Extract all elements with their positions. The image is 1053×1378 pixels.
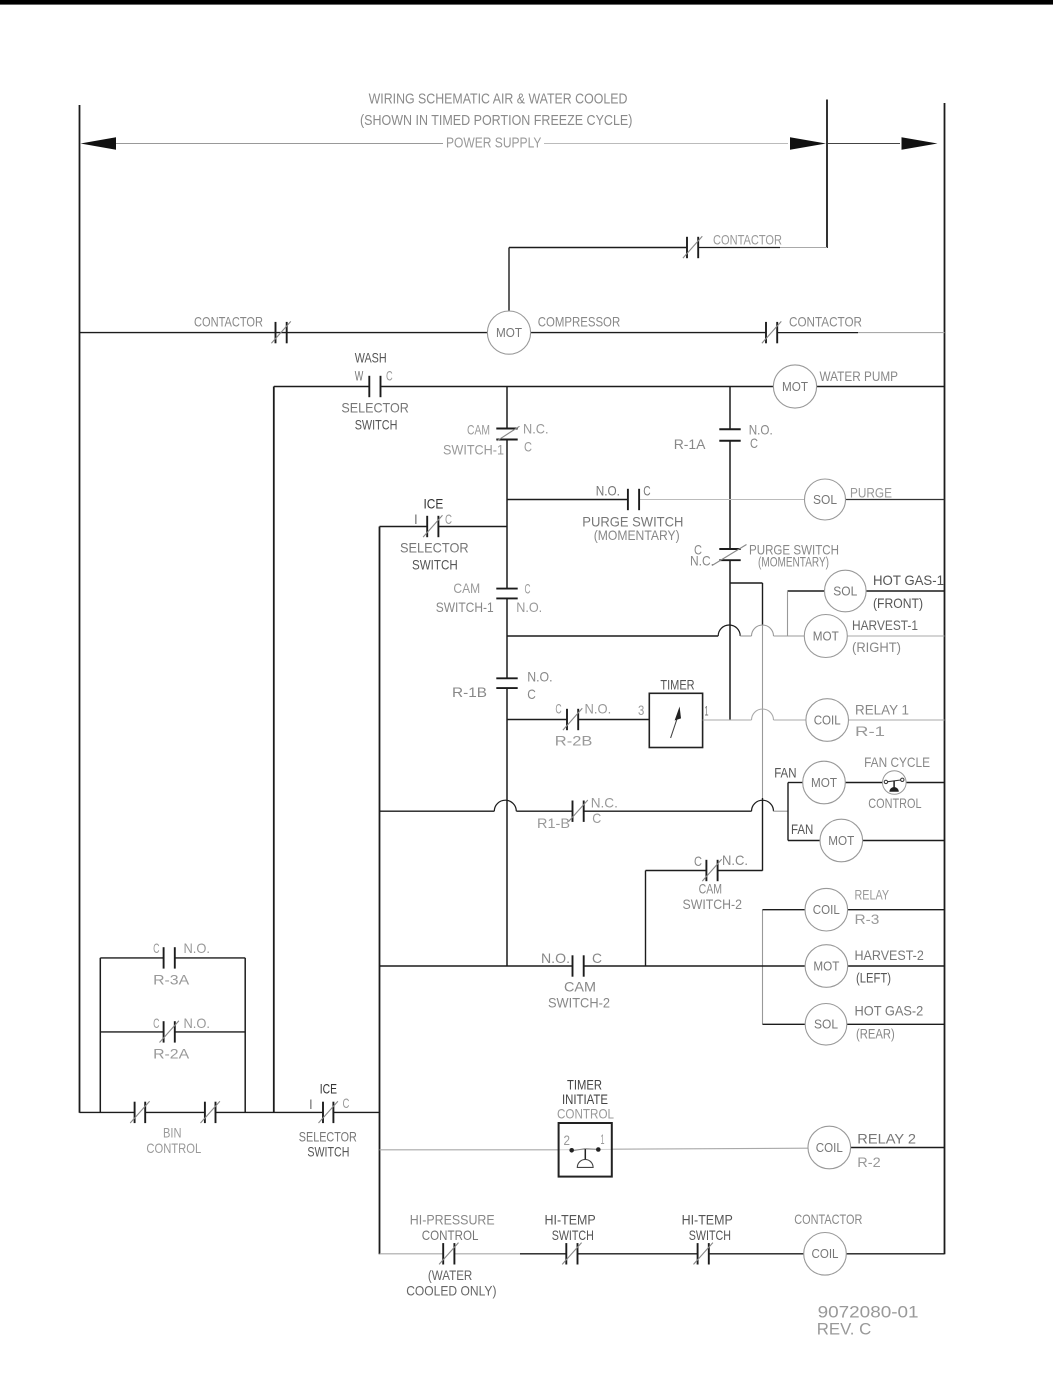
svg-text:ICE: ICE (320, 1081, 337, 1097)
fan cycle control switch (883, 771, 907, 795)
svg-text:N.O.: N.O. (184, 1015, 211, 1031)
svg-text:C: C (555, 700, 561, 716)
label: RELAY 2 R-2 (857, 1131, 916, 1171)
contact: CONTACTOR (left, N.C.) (271, 321, 290, 343)
label: WATER PUMP (820, 368, 899, 384)
label: HARVEST-2 (LEFT) (855, 947, 924, 986)
label: CONTACTOR (bottom) (794, 1211, 862, 1227)
coil: COIL relay 1 (806, 699, 849, 742)
svg-text:CAM: CAM (467, 422, 490, 438)
label: CAM SWITCH-1 N.C. C (443, 421, 549, 458)
svg-text:POWER SUPPLY: POWER SUPPLY (446, 136, 542, 152)
solenoid: SOL hot gas-2 (805, 1004, 847, 1046)
svg-text:(LEFT): (LEFT) (856, 970, 891, 986)
label: PURGE (850, 485, 892, 501)
contact: HI-PRESSURE CONTROL (N.C.) (439, 1243, 458, 1265)
label: HARVEST-1 (RIGHT) (852, 617, 918, 655)
svg-text:R-1: R-1 (855, 723, 885, 739)
svg-text:FAN CYCLE: FAN CYCLE (864, 754, 930, 770)
contact: CAM SWITCH-1 (N.C.) (496, 426, 519, 441)
label: CAM SWITCH-1 C N.O. (436, 580, 543, 615)
label: FAN (2) (791, 821, 813, 837)
svg-text:SWITCH-1: SWITCH-1 (436, 599, 494, 615)
svg-text:WATER PUMP: WATER PUMP (820, 368, 899, 384)
contact: CAM SWITCH-1 (N.O. lower) (496, 589, 517, 599)
svg-text:C: C (524, 439, 532, 455)
svg-text:MOT: MOT (811, 776, 837, 790)
label: HOT GAS-2 (REAR) (855, 1003, 924, 1042)
wire: hot gas-2 stubs (763, 1023, 945, 1025)
wire: rail from ice rung down (x=379) (379, 527, 381, 1255)
svg-text:HI-PRESSURE: HI-PRESSURE (410, 1212, 495, 1228)
label: PURGE SWITCH (MOMENTARY) (582, 482, 683, 543)
svg-text:COOLED ONLY): COOLED ONLY) (406, 1282, 496, 1298)
contact: CAM SWITCH-2 (N.O.) (573, 955, 584, 976)
label: POWER SUPPLY (446, 136, 542, 152)
label: TIMER INITIATE CONTROL (557, 1077, 614, 1122)
contact: R-1B (N.O.) (496, 678, 517, 688)
svg-text:R-2A: R-2A (153, 1045, 190, 1061)
svg-text:TIMER: TIMER (660, 676, 694, 692)
svg-text:HARVEST-2: HARVEST-2 (855, 947, 924, 963)
svg-text:WIRING SCHEMATIC AIR & WATER C: WIRING SCHEMATIC AIR & WATER COOLED (369, 92, 628, 108)
contact: CONTACTOR (N.C., top) (683, 236, 702, 258)
contact: PURGE SWITCH (N.O.) (628, 489, 639, 510)
svg-text:HI-TEMP: HI-TEMP (545, 1212, 596, 1228)
svg-text:COIL: COIL (814, 713, 841, 727)
svg-text:CAM: CAM (699, 881, 722, 897)
label: HI-TEMP SWITCH 2 (682, 1212, 733, 1244)
label: ICE I C (414, 495, 452, 527)
svg-text:3: 3 (638, 702, 644, 718)
contact: ICE SELECTOR SWITCH 2 (N.C.) (319, 1101, 338, 1123)
svg-text:RELAY: RELAY (855, 887, 890, 903)
power supply dimension line with arrowheads (81, 137, 938, 149)
label: CONTACTOR (left) (194, 314, 263, 330)
label: CAM SWITCH-2 N.O. C (541, 950, 610, 1011)
wire: timer rung (R-2B) (507, 719, 649, 721)
label: R-2A C N.O. (153, 1015, 210, 1061)
svg-text:N.O.: N.O. (596, 482, 620, 498)
svg-text:SWITCH: SWITCH (552, 1227, 594, 1243)
svg-text:C: C (343, 1095, 350, 1111)
svg-text:MOT: MOT (496, 326, 522, 340)
label: R-1B N.O. C (452, 669, 553, 703)
svg-text:SWITCH-1: SWITCH-1 (443, 442, 504, 458)
svg-text:N.C.: N.C. (591, 794, 618, 810)
contact: CAM SWITCH-2 (N.C.) (702, 859, 721, 881)
svg-text:BIN: BIN (163, 1124, 182, 1140)
svg-text:N.O.: N.O. (516, 599, 542, 615)
label: PURGE SWITCH (MOMENTARY) N.C. (690, 542, 839, 570)
svg-text:CONTACTOR: CONTACTOR (194, 314, 263, 330)
wire: fan motor 1 rung (788, 782, 945, 784)
label: R-2B C N.O. (555, 700, 611, 748)
svg-text:R1-B: R1-B (537, 815, 570, 831)
label: CAM SWITCH-2 C N.C. (683, 852, 749, 912)
svg-text:TIMER: TIMER (567, 1077, 602, 1093)
wire: contactor rung (509, 248, 827, 312)
motor: MOT fan 2 (820, 819, 863, 862)
svg-text:W: W (355, 367, 364, 383)
svg-text:CONTROL: CONTROL (868, 795, 921, 811)
svg-text:ICE: ICE (424, 495, 444, 511)
motor: MOT harvest-2 (805, 945, 848, 988)
wire: cam switch-2 N.C. rung (646, 871, 763, 967)
label: HI-TEMP SWITCH 1 (545, 1212, 596, 1244)
svg-text:CONTROL: CONTROL (146, 1140, 201, 1156)
label: BIN CONTROL (146, 1124, 201, 1156)
svg-text:CONTROL: CONTROL (557, 1106, 614, 1122)
svg-text:MOT: MOT (813, 959, 839, 973)
svg-text:SELECTOR: SELECTOR (299, 1128, 357, 1144)
svg-text:CONTACTOR: CONTACTOR (713, 232, 782, 248)
svg-text:HARVEST-1: HARVEST-1 (852, 617, 918, 633)
wire: compressor rung (80, 332, 945, 334)
wire: right power rail (944, 103, 946, 1254)
label: ICE I C (2) (309, 1081, 349, 1113)
svg-text:HI-TEMP: HI-TEMP (682, 1212, 733, 1228)
label: CONTACTOR (right) (789, 314, 862, 330)
wire: relay-2 rung (380, 1148, 945, 1150)
svg-text:HOT GAS-2: HOT GAS-2 (855, 1003, 924, 1019)
svg-text:(SHOWN IN TIMED PORTION FREEZE: (SHOWN IN TIMED PORTION FREEZE CYCLE) (360, 113, 632, 129)
svg-text:N.O.: N.O. (184, 940, 211, 956)
wire: harvest-1 rung (507, 625, 945, 636)
svg-text:(REAR): (REAR) (856, 1026, 895, 1042)
wire: ice selector rung (380, 526, 508, 528)
contact: R-2A (N.C.) (160, 1021, 179, 1043)
solenoid: SOL purge (805, 479, 846, 520)
svg-text:N.C.: N.C. (690, 553, 714, 569)
label: RELAY R-3 (855, 887, 890, 928)
label: 2 1 (pins) (564, 1131, 605, 1148)
svg-text:CAM: CAM (564, 979, 596, 995)
svg-text:2: 2 (564, 1132, 571, 1148)
label: FAN CYCLE CONTROL (864, 754, 930, 811)
coil: COIL relay 3 (805, 888, 848, 931)
motor: MOT compressor (487, 311, 530, 354)
svg-text:SWITCH: SWITCH (412, 557, 458, 573)
svg-text:C: C (386, 367, 393, 383)
contact: PURGE SWITCH momentary (N.C.) (712, 545, 747, 566)
svg-text:C: C (153, 1015, 159, 1031)
svg-text:FAN: FAN (774, 765, 796, 781)
svg-text:R-2B: R-2B (555, 732, 593, 748)
svg-text:MOT: MOT (828, 834, 854, 848)
svg-text:CONTROL: CONTROL (422, 1227, 479, 1243)
contact: BIN CONTROL 2 (N.C.) (201, 1101, 220, 1123)
wire: fan motor 2 rung (788, 840, 945, 842)
svg-text:C: C (694, 853, 702, 869)
wire: R-1A column (729, 387, 731, 721)
svg-text:COIL: COIL (816, 1141, 843, 1155)
svg-text:R-2: R-2 (857, 1154, 881, 1170)
wire: vertical x=762 relay3 to hot gas-2 (762, 910, 764, 1025)
label: drawing number and revision (817, 1303, 919, 1339)
solenoid: SOL hot gas-1 (825, 570, 867, 612)
coil: COIL relay 2 (808, 1126, 851, 1169)
timer: TIMER box (649, 693, 702, 747)
svg-text:C: C (592, 950, 602, 966)
label: RELAY 1 R-1 (855, 702, 909, 740)
contact: R-1A (N.O.) (719, 429, 740, 441)
wire: contactor coil rung (380, 1253, 945, 1255)
svg-text:MOT: MOT (782, 380, 808, 394)
contact: CONTACTOR (right, N.C.) (762, 321, 781, 343)
label: SELECTOR SWITCH (2) (299, 1128, 357, 1159)
svg-text:SOL: SOL (813, 493, 837, 507)
label: CONTACTOR (top) (713, 232, 782, 248)
contact: HI-TEMP SWITCH 1 (N.C.) (562, 1243, 581, 1265)
label: R-3A C N.O. (153, 940, 210, 987)
label: R1-B N.C. C (537, 794, 618, 831)
svg-text:N.C.: N.C. (722, 852, 748, 868)
wire: branch below purge switch to x=762 (730, 582, 763, 584)
label: WASH W C (355, 349, 393, 383)
svg-text:SWITCH: SWITCH (307, 1144, 349, 1160)
label: TIMER 3 1 (638, 676, 709, 718)
svg-text:RELAY 1: RELAY 1 (855, 702, 909, 718)
svg-text:C: C (445, 511, 452, 527)
wire: left power rail (79, 105, 81, 1113)
wire: R1-B rung (380, 800, 789, 811)
contact: ICE SELECTOR SWITCH (N.C.) (423, 515, 442, 537)
wire: purge solenoid rung (507, 499, 945, 501)
svg-text:C: C (750, 435, 758, 451)
svg-text:SWITCH-2: SWITCH-2 (548, 995, 610, 1011)
contact: BIN CONTROL 1 (N.C.) (130, 1101, 149, 1123)
wire: timer to relay-1 coil (703, 709, 945, 720)
label: HOT GAS-1 (FRONT) (873, 572, 944, 611)
svg-text:COMPRESSOR: COMPRESSOR (538, 314, 621, 330)
svg-text:PURGE: PURGE (850, 485, 892, 501)
svg-text:COIL: COIL (813, 903, 840, 917)
svg-text:(RIGHT): (RIGHT) (852, 639, 901, 655)
label: HI-PRESSURE CONTROL (WATER COOLED ONLY) (406, 1212, 496, 1299)
label: SELECTOR SWITCH (wash) (341, 400, 408, 433)
wire: hot gas-1 stub (788, 591, 945, 636)
svg-text:(MOMENTARY): (MOMENTARY) (594, 527, 680, 543)
svg-text:C: C (527, 686, 536, 702)
wire: wash selector / water pump rung (274, 386, 945, 388)
svg-text:(MOMENTARY): (MOMENTARY) (758, 554, 829, 570)
svg-text:N.O.: N.O. (541, 950, 570, 966)
contact: WASH SELECTOR SWITCH (N.O.) (369, 376, 380, 397)
svg-text:REV. C: REV. C (817, 1319, 872, 1338)
wire: upper-right rail segment (826, 100, 828, 249)
svg-text:C: C (525, 581, 531, 597)
svg-text:COIL: COIL (812, 1247, 839, 1261)
svg-text:SWITCH: SWITCH (689, 1227, 731, 1243)
svg-text:I: I (309, 1096, 312, 1112)
timer initiate control box (559, 1123, 612, 1177)
svg-text:N.O.: N.O. (585, 700, 612, 716)
label: FAN (1) (774, 765, 796, 781)
svg-text:C: C (643, 482, 650, 498)
svg-text:I: I (414, 511, 417, 527)
wire: relay-3 coil stubs (763, 909, 945, 911)
svg-text:1: 1 (705, 703, 709, 719)
svg-text:R-1B: R-1B (452, 684, 487, 700)
wire: rail from wash rung down (x=274) (273, 387, 275, 1113)
motor: MOT water pump (773, 365, 816, 408)
contact: R-3A (N.O.) (164, 947, 175, 968)
svg-text:FAN: FAN (791, 821, 813, 837)
wire: vertical x=762 down to cam switch-2 rung (762, 583, 764, 871)
svg-text:(WATER: (WATER (428, 1267, 472, 1283)
contact: R1-B (N.C.) (568, 800, 587, 822)
svg-text:WASH: WASH (355, 349, 387, 365)
svg-text:CONTACTOR: CONTACTOR (794, 1211, 862, 1227)
wire: parallel box verticals (100, 958, 245, 1113)
motor: MOT harvest-1 (804, 615, 847, 658)
label: drawing title (360, 92, 632, 129)
svg-text:N.O.: N.O. (527, 669, 552, 685)
contact: R-2B (N.C.) (563, 708, 582, 730)
motor: MOT fan 1 (803, 761, 846, 804)
wire: R-2A rung (100, 1031, 245, 1033)
svg-text:MOT: MOT (813, 629, 839, 643)
svg-text:1: 1 (601, 1131, 605, 1147)
svg-text:(FRONT): (FRONT) (873, 595, 923, 611)
svg-text:CAM: CAM (453, 580, 480, 596)
label: COMPRESSOR (538, 314, 621, 330)
svg-text:SOL: SOL (814, 1018, 838, 1032)
svg-text:R-3: R-3 (855, 911, 880, 927)
top border bar (frame) (0, 0, 1053, 5)
svg-text:CONTACTOR: CONTACTOR (789, 314, 862, 330)
svg-text:R-3A: R-3A (153, 971, 190, 987)
svg-text:R-1A: R-1A (674, 436, 706, 452)
svg-text:SOL: SOL (833, 584, 857, 598)
svg-text:RELAY 2: RELAY 2 (857, 1131, 916, 1147)
svg-text:SELECTOR: SELECTOR (341, 400, 408, 416)
svg-text:SELECTOR: SELECTOR (400, 540, 469, 556)
wire: R-3A rung (100, 957, 245, 959)
label: SELECTOR SWITCH (ice) (400, 540, 469, 573)
wire: harvest-2 rung (380, 965, 945, 967)
svg-text:N.C.: N.C. (523, 421, 549, 437)
svg-text:C: C (592, 810, 601, 826)
coil: COIL contactor (804, 1233, 847, 1276)
wire: fan branch vertical (787, 783, 789, 841)
svg-text:SWITCH: SWITCH (355, 417, 398, 433)
wire: cam switch-1 column (506, 387, 508, 967)
svg-text:SWITCH-2: SWITCH-2 (683, 896, 743, 912)
contact: HI-TEMP SWITCH 2 (N.C.) (694, 1243, 713, 1265)
svg-text:C: C (153, 940, 159, 956)
wire: bin control rung (80, 1111, 380, 1113)
svg-text:HOT GAS-1: HOT GAS-1 (873, 572, 944, 588)
label: R-1A N.O. C (674, 422, 773, 452)
